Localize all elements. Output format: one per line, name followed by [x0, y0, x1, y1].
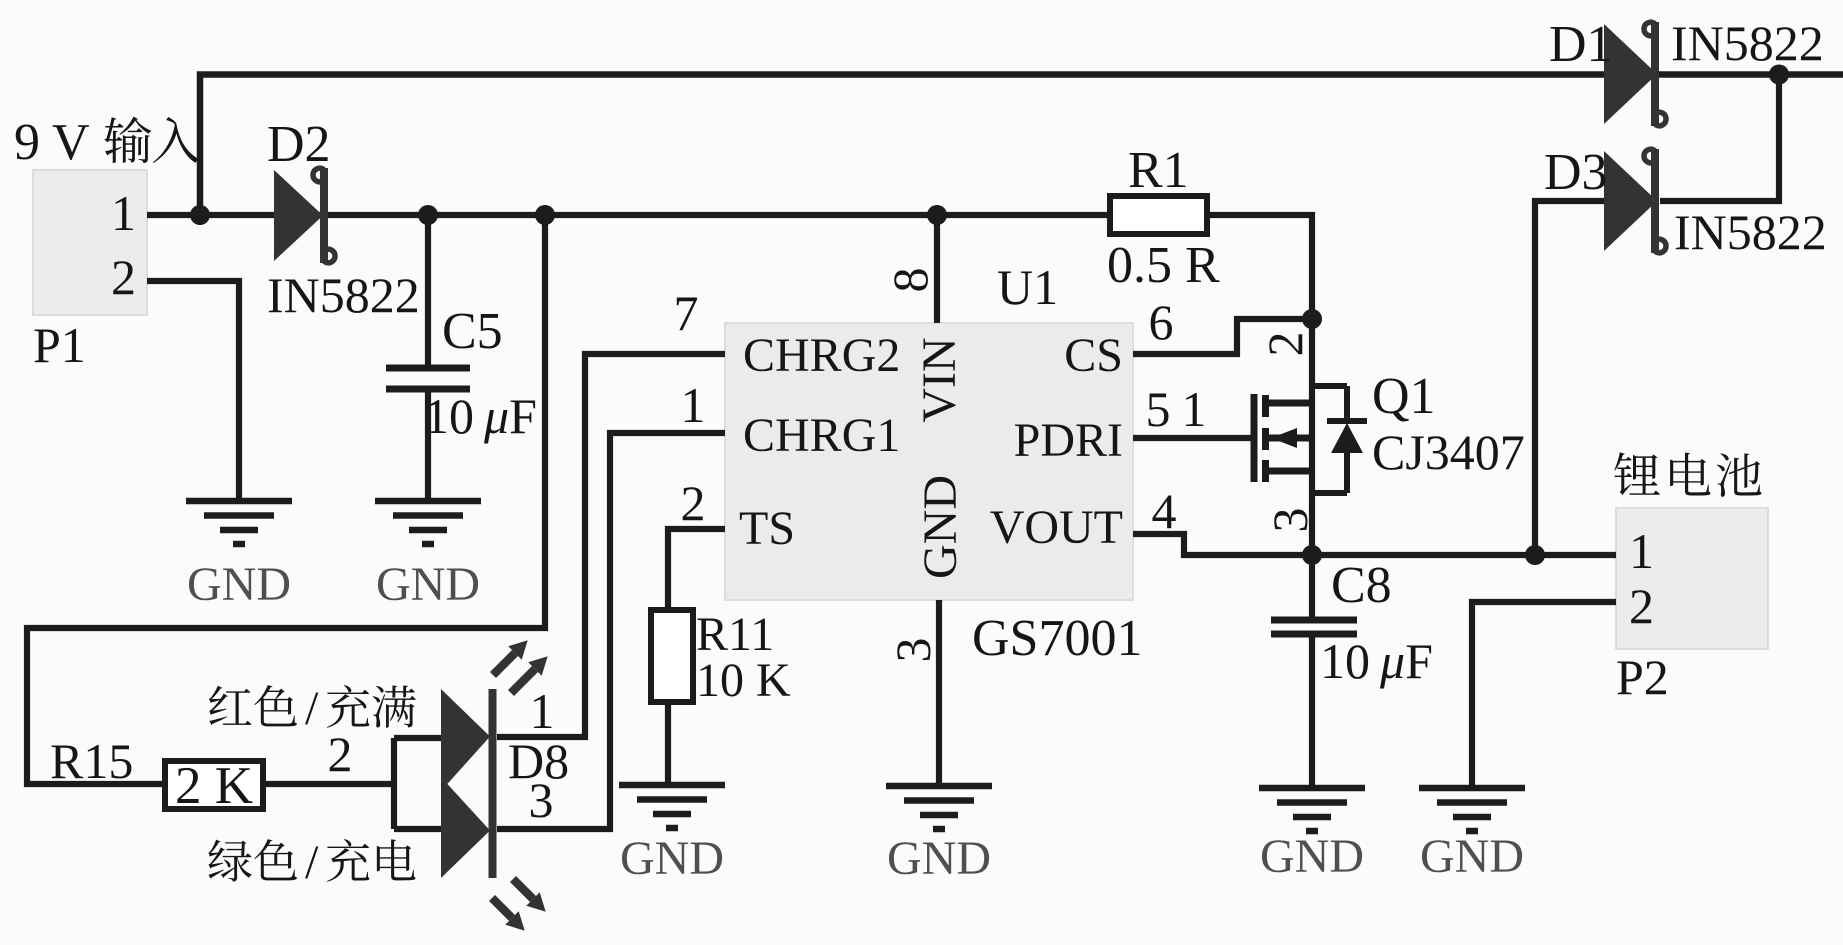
- svg-text:10 K: 10 K: [696, 654, 791, 707]
- svg-text:GS7001: GS7001: [972, 610, 1142, 667]
- ground C8: [1259, 788, 1365, 831]
- svg-text:1: 1: [1629, 523, 1654, 579]
- svg-text:2 K: 2 K: [175, 757, 253, 815]
- svg-text:3: 3: [1262, 508, 1318, 533]
- svg-text:GND: GND: [620, 832, 724, 885]
- svg-text:3: 3: [885, 638, 941, 663]
- label green/charging: [208, 839, 297, 882]
- svg-text:GND: GND: [376, 558, 480, 611]
- svg-text:TS: TS: [739, 502, 795, 555]
- svg-text:10 μF: 10 μF: [1320, 633, 1433, 689]
- wire main VIN net y=215: [147, 212, 1109, 218]
- svg-text:IN5822: IN5822: [1674, 204, 1827, 260]
- LED D8 light arrows top: [493, 653, 515, 675]
- wire D8 pin1 to U1 CHRG2 pin7: [497, 354, 725, 737]
- svg-text:P1: P1: [33, 317, 86, 373]
- diode D1 IN5822 schottky: [1604, 24, 1657, 124]
- svg-text:D2: D2: [267, 116, 331, 173]
- resistor R11: [651, 610, 693, 702]
- wire U1 TS pin2 to R11: [668, 529, 725, 610]
- wire VOUT pin4 to P2 pin1: [1133, 534, 1616, 555]
- capacitor C5: [386, 368, 470, 389]
- ground P2: [1419, 788, 1525, 831]
- wire R1 output down to Q1/VOUT node: [1208, 215, 1312, 555]
- junction VOUT/C8: [1302, 545, 1322, 565]
- junction battery node: [1525, 545, 1545, 565]
- wire R15 to D8 anode: [263, 781, 394, 787]
- svg-text:D1: D1: [1549, 16, 1613, 73]
- svg-text:C5: C5: [442, 303, 503, 360]
- svg-text:GND: GND: [187, 558, 291, 611]
- ground U1: [886, 786, 992, 829]
- LED D8 red chip: [441, 689, 490, 791]
- svg-text:GND: GND: [914, 475, 967, 579]
- svg-text:R15: R15: [50, 733, 133, 789]
- svg-text:VOUT: VOUT: [990, 501, 1123, 554]
- LED D8 green chip: [441, 777, 490, 878]
- junction CS/drain: [1302, 309, 1322, 329]
- wire D8 pin3 to U1 CHRG1 pin1: [497, 433, 725, 829]
- label lithium battery: [1614, 452, 1761, 497]
- wire PDRI pin5 to Q1 gate: [1133, 435, 1251, 441]
- node A junction: [190, 205, 210, 225]
- svg-text:9 V: 9 V: [14, 114, 90, 171]
- wire U1 GND pin3: [936, 600, 942, 786]
- wire LED feed from node B down-left to R15: [27, 215, 545, 784]
- svg-text:3: 3: [529, 772, 554, 828]
- svg-text:2: 2: [328, 726, 353, 782]
- svg-text:GND: GND: [887, 832, 991, 885]
- svg-text:PDRI: PDRI: [1014, 414, 1123, 467]
- svg-text:Q1: Q1: [1372, 368, 1436, 425]
- label red/full: [209, 685, 297, 726]
- LED D8 light arrows bottom: [513, 879, 533, 899]
- junction VIN: [927, 205, 947, 225]
- svg-text:P2: P2: [1616, 649, 1669, 705]
- svg-text:4: 4: [1152, 483, 1177, 539]
- svg-text:GND: GND: [1260, 830, 1364, 883]
- capacitor C8: [1271, 620, 1357, 634]
- wire battery node up to D3: [1535, 201, 1604, 555]
- svg-text:CS: CS: [1064, 329, 1123, 382]
- diode D3 IN5822 schottky: [1604, 151, 1657, 251]
- resistor R1: [1110, 196, 1207, 234]
- ground P1: [186, 501, 292, 544]
- svg-text:1: 1: [111, 185, 136, 241]
- svg-text:8: 8: [882, 268, 938, 293]
- svg-text:7: 7: [674, 285, 699, 341]
- wire P2 pin2 to GND: [1472, 602, 1616, 788]
- wire D8 common-anode box: [394, 738, 441, 829]
- wire VIN pin8: [934, 215, 940, 323]
- Q1 body diode: [1312, 386, 1367, 493]
- junction node B: [535, 205, 555, 225]
- svg-text:1: 1: [530, 683, 555, 739]
- svg-text:2: 2: [681, 475, 706, 531]
- svg-text:10 μF: 10 μF: [424, 388, 537, 444]
- svg-text:D3: D3: [1544, 144, 1608, 201]
- connector P2: [1616, 508, 1768, 649]
- connector P1: [33, 170, 147, 315]
- svg-text:1: 1: [681, 377, 706, 433]
- junction D1 cathode: [1769, 65, 1789, 85]
- ground C5: [375, 501, 481, 544]
- svg-text:C8: C8: [1331, 557, 1392, 614]
- wire R11 to GND: [665, 702, 671, 786]
- wire CS pin6 to Q1 drain node: [1133, 319, 1312, 354]
- resistor R15 box 2K: [165, 761, 263, 809]
- LED D8 cathode bar: [489, 689, 497, 878]
- wire P1 pin2 to GND: [147, 281, 239, 501]
- ground R11: [619, 785, 725, 828]
- svg-text:1: 1: [1182, 381, 1207, 437]
- svg-text:2: 2: [111, 249, 136, 305]
- svg-text:CJ3407: CJ3407: [1372, 424, 1525, 480]
- svg-text:IN5822: IN5822: [267, 267, 420, 323]
- svg-text:IN5822: IN5822: [1671, 15, 1824, 71]
- junction C5: [418, 205, 438, 225]
- svg-text:2: 2: [1257, 332, 1313, 357]
- svg-text:/: /: [305, 836, 319, 889]
- svg-text:2: 2: [1629, 578, 1654, 634]
- svg-text:0.5 R: 0.5 R: [1107, 237, 1220, 294]
- svg-text:CHRG1: CHRG1: [743, 409, 900, 462]
- wire C5 branch: [425, 215, 431, 501]
- diode D2 IN5822 schottky: [274, 170, 323, 261]
- svg-text:5: 5: [1146, 381, 1171, 437]
- svg-text:6: 6: [1149, 294, 1174, 350]
- svg-text:U1: U1: [997, 259, 1058, 315]
- svg-text:CHRG2: CHRG2: [743, 329, 900, 382]
- svg-text:/: /: [305, 682, 319, 735]
- IC U1 body GS7001: [725, 323, 1133, 600]
- wire top net from node A to D1 and right edge: [200, 75, 1843, 216]
- wire D3 cathode to D1 cathode junction: [1660, 75, 1779, 202]
- wire C8 branch: [1309, 555, 1315, 788]
- svg-text:GND: GND: [1420, 830, 1524, 883]
- svg-text:VIN: VIN: [913, 337, 966, 422]
- svg-text:R1: R1: [1128, 142, 1189, 199]
- transistor Q1 CJ3407 MOSFET: [1254, 394, 1312, 482]
